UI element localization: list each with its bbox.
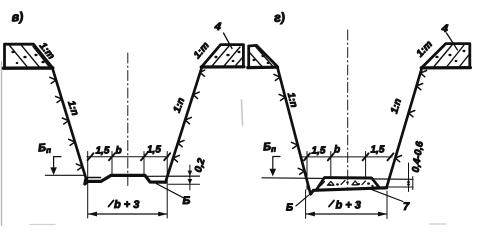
slope ticks right slope bbox=[173, 70, 205, 162]
svg-text:1,5: 1,5 bbox=[371, 145, 385, 156]
Б label with leader (left) bbox=[156, 184, 184, 199]
dots bbox=[435, 50, 465, 62]
svg-text:1,5: 1,5 bbox=[96, 146, 110, 157]
spoil bank block right (right diagram) bbox=[422, 44, 470, 68]
hatch lines bbox=[250, 47, 273, 67]
right slope 1:n (left diagram) bbox=[166, 67, 203, 183]
45deg ticks bbox=[88, 153, 171, 160]
b+3 dimension (left) bbox=[87, 181, 89, 218]
dots in right block bbox=[214, 51, 240, 62]
svg-text:Б: Б bbox=[183, 195, 191, 207]
svg-text:7: 7 bbox=[403, 201, 410, 213]
svg-text:b: b bbox=[116, 146, 122, 157]
right slope 1:n (right diagram) bbox=[387, 68, 422, 188]
trench bottom profile (right diagram) bbox=[311, 188, 387, 194]
0,4-0,6 dimension (right) bbox=[372, 186, 413, 188]
left slope 1:n (left diagram) bbox=[52, 67, 86, 178]
Б label with leader (right) bbox=[296, 195, 309, 206]
0,2 dimension (left) bbox=[169, 183, 200, 185]
scan edge artifact bbox=[1, 62, 3, 226]
hatch lines bbox=[434, 45, 470, 67]
hatch lines in left block bbox=[9, 45, 49, 67]
dimension row 1,5 b 1,5 (right) bbox=[302, 156, 393, 158]
berm level line (left) bbox=[46, 174, 85, 176]
slope ticks bbox=[395, 71, 426, 162]
dimension row 1,5 b 1,5 (left) bbox=[87, 156, 169, 158]
slope ticks left slope bbox=[50, 77, 83, 170]
dots bbox=[253, 55, 270, 64]
b+3 dimension (right) bbox=[305, 190, 307, 219]
lining strip bbox=[316, 178, 380, 191]
spoil bank block left (right diagram) bbox=[249, 45, 278, 67]
svg-text:1,5: 1,5 bbox=[312, 146, 326, 157]
svg-text:b + 3: b + 3 bbox=[114, 199, 139, 211]
hatch lines right block bbox=[212, 46, 243, 66]
label 7 with leader (right) bbox=[371, 189, 403, 201]
svg-text:в): в) bbox=[11, 10, 24, 25]
dots in left block bbox=[11, 51, 44, 64]
bottom level thin line left bbox=[87, 177, 101, 179]
45deg ticks bbox=[304, 153, 394, 160]
strip texture bbox=[321, 180, 366, 185]
berm level line (right), continues across trench at design bottom level bbox=[262, 178, 413, 180]
Бп bracket arrow bbox=[273, 157, 280, 173]
svg-text:г): г) bbox=[274, 10, 286, 25]
slope ticks bbox=[274, 74, 304, 174]
spoil bank block left (left diagram) bbox=[5, 44, 53, 67]
svg-text:b: b bbox=[334, 145, 340, 156]
trench bottom profile (left diagram) bbox=[85, 175, 166, 184]
Бп bracket arrow bbox=[54, 157, 61, 171]
centre axis (right diagram) bbox=[347, 30, 349, 190]
plateau level thin line right / 0,2 upper line bbox=[145, 175, 200, 177]
centre axis (left diagram) bbox=[127, 53, 129, 187]
svg-text:Б: Б bbox=[286, 203, 293, 214]
left slope 1:n (right diagram) bbox=[277, 66, 310, 194]
svg-text:1,5: 1,5 bbox=[147, 145, 161, 156]
svg-text:b + 3: b + 3 bbox=[336, 200, 361, 212]
spoil bank block right (left diagram) bbox=[202, 45, 243, 67]
